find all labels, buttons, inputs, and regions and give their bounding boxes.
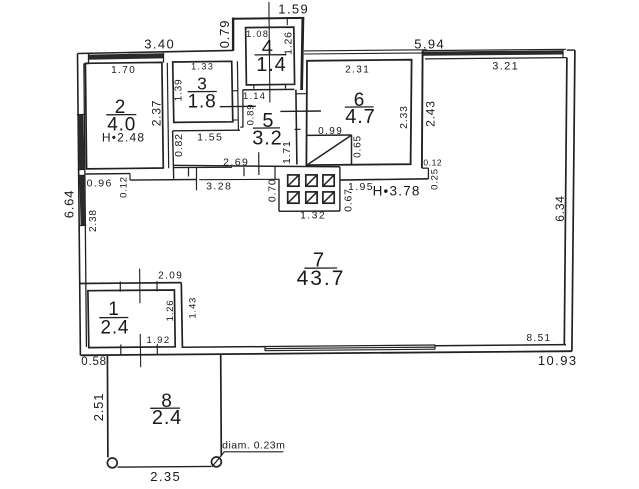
svg-text:diam. 0.23m: diam. 0.23m <box>222 439 285 451</box>
hatch area outline (left, bottom, right edges) <box>278 180 280 212</box>
svg-text:2.43: 2.43 <box>423 100 437 127</box>
svg-text:1.92: 1.92 <box>146 335 170 346</box>
svg-text:1.59: 1.59 <box>278 2 309 17</box>
wall lower edge below room 4 <box>243 88 295 91</box>
svg-text:2.51: 2.51 <box>91 393 106 422</box>
bottom wall inner segment left of window <box>182 346 265 349</box>
corridor top edge <box>173 129 240 132</box>
right wall outer line <box>572 50 575 351</box>
left wall window joint ticks <box>77 113 85 115</box>
stairs box right edge <box>351 135 353 165</box>
stairs diagonal <box>307 135 351 165</box>
tick on protrusion top <box>286 17 288 25</box>
svg-text:4.7: 4.7 <box>345 106 375 128</box>
niche vertical below room4 left <box>242 90 244 127</box>
svg-text:6.64: 6.64 <box>61 190 76 219</box>
svg-text:10.93: 10.93 <box>538 353 578 368</box>
column circle right <box>212 457 222 467</box>
svg-text:1.14: 1.14 <box>243 91 266 101</box>
top wall middle outer line pair <box>304 50 427 51</box>
svg-text:1.32: 1.32 <box>300 209 326 221</box>
left wall outer line <box>78 54 81 356</box>
room 8 bottom line <box>118 465 212 468</box>
svg-text:43.7: 43.7 <box>297 267 346 290</box>
svg-text:3.2: 3.2 <box>252 128 282 150</box>
svg-text:0.82: 0.82 <box>173 133 185 157</box>
room 1 box <box>88 290 175 348</box>
top-right window dark band <box>424 50 564 56</box>
svg-text:0.12: 0.12 <box>423 157 442 167</box>
svg-text:3.28: 3.28 <box>206 181 232 193</box>
top-right window outer line <box>423 49 566 50</box>
left wall window band lower <box>79 175 86 225</box>
right wall inner line <box>564 58 567 345</box>
corridor left edge <box>173 131 174 179</box>
svg-text:1.71: 1.71 <box>281 140 293 164</box>
svg-text:1.4: 1.4 <box>256 54 286 76</box>
svg-text:2.09: 2.09 <box>158 270 183 281</box>
room 3 box <box>173 61 233 122</box>
svg-text:1.43: 1.43 <box>187 297 198 319</box>
svg-text:0.25: 0.25 <box>430 168 441 190</box>
niche tie <box>240 126 243 128</box>
partition middle line right of room 2 <box>167 63 168 169</box>
svg-text:0.99: 0.99 <box>318 126 343 137</box>
svg-text:2.69: 2.69 <box>223 156 249 168</box>
svg-text:2.4: 2.4 <box>152 407 182 429</box>
svg-text:1.08: 1.08 <box>246 29 269 39</box>
room 8 left wall <box>106 356 109 458</box>
svg-text:1.33: 1.33 <box>191 62 214 72</box>
svg-text:3.21: 3.21 <box>492 60 519 72</box>
top wall outer line (3.40 section) <box>78 50 234 53</box>
svg-text:0.65: 0.65 <box>352 135 363 158</box>
svg-text:0.67: 0.67 <box>342 188 354 212</box>
svg-text:1.26: 1.26 <box>165 300 176 322</box>
room 1 dimension ticks <box>119 282 121 292</box>
wall from hatch to jog <box>340 179 429 180</box>
svg-text:H•3.78: H•3.78 <box>373 184 421 199</box>
jog 0.12/0.25 <box>422 167 429 169</box>
svg-text:2.35: 2.35 <box>150 469 181 484</box>
bottom wall window band (3 lines) <box>265 345 435 347</box>
protrusion left wall <box>232 18 234 51</box>
section left wall <box>421 51 424 169</box>
vertical dimension line through room 4 <box>269 2 270 103</box>
svg-text:2.33: 2.33 <box>398 105 410 129</box>
svg-text:2.31: 2.31 <box>345 65 370 76</box>
svg-text:0.89: 0.89 <box>246 104 257 126</box>
svg-text:0.58: 0.58 <box>81 356 107 368</box>
svg-text:0.70: 0.70 <box>266 178 278 202</box>
bottom wall outer line <box>80 351 572 355</box>
svg-text:2.4: 2.4 <box>100 317 129 338</box>
svg-text:3: 3 <box>197 74 208 94</box>
svg-text:1.8: 1.8 <box>188 92 217 113</box>
left wall window band upper <box>78 114 85 169</box>
room 4 bottom window jamb ticks <box>253 84 255 89</box>
protrusion top wall <box>232 17 304 20</box>
leader line to diam label <box>212 452 224 467</box>
svg-text:1.26: 1.26 <box>283 31 295 55</box>
svg-text:2.38: 2.38 <box>88 209 99 232</box>
top wall window above room 2 (dark band) <box>89 53 164 59</box>
corridor floor second line short <box>173 166 232 168</box>
tie in room3 right wall <box>232 90 238 92</box>
svg-text:0.79: 0.79 <box>217 20 232 49</box>
corridor floor upper line / hatch top <box>173 165 340 166</box>
svg-text:0.96: 0.96 <box>87 178 113 190</box>
svg-text:0.12: 0.12 <box>119 176 130 198</box>
corridor dimension ticks <box>188 168 190 177</box>
svg-text:H•2.48: H•2.48 <box>102 131 145 145</box>
room 3 right wall second line <box>237 61 238 130</box>
column circle left <box>107 458 117 468</box>
protrusion right wall <box>302 18 303 90</box>
svg-text:5.94: 5.94 <box>414 37 445 52</box>
wall bottom edge below room 2 <box>86 173 130 176</box>
door line room5 to room6 <box>280 110 321 112</box>
svg-text:6.34: 6.34 <box>553 195 567 222</box>
room 4 box <box>246 27 295 85</box>
right wall top cap <box>567 49 575 51</box>
stairs box top edge <box>307 134 352 136</box>
window right jamb <box>562 49 564 57</box>
window jamb ticks room2 top <box>88 54 90 64</box>
room 8 right wall <box>220 354 223 456</box>
door line room3 to room5 <box>220 105 256 107</box>
svg-text:1.39: 1.39 <box>173 79 184 102</box>
room 6 box <box>306 60 411 165</box>
room5 right wall line A <box>296 90 297 165</box>
svg-text:3.40: 3.40 <box>144 37 175 52</box>
svg-text:1.55: 1.55 <box>197 131 223 143</box>
room 2 box <box>85 62 163 168</box>
L-wall right vertical <box>181 283 182 347</box>
svg-text:1.70: 1.70 <box>111 65 136 76</box>
svg-text:2.37: 2.37 <box>150 100 164 127</box>
left wall inner line <box>84 64 87 348</box>
svg-text:8.51: 8.51 <box>526 333 551 344</box>
hatched squares 3x2 <box>288 175 299 186</box>
top-right window inner line <box>425 58 567 59</box>
L-wall above room 1 <box>80 282 181 285</box>
bottom wall inner segment right of window <box>435 345 566 346</box>
top wall inner stub left <box>84 63 89 65</box>
ties in room5/6 wall <box>296 93 307 95</box>
